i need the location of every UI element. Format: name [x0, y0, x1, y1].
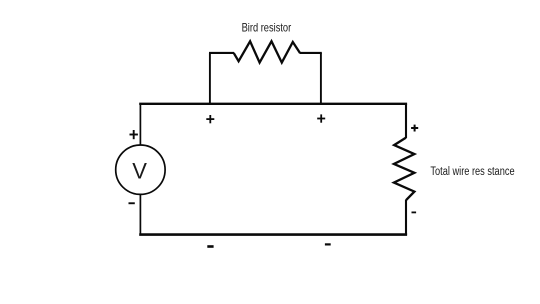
- wire left vertical lower: [139, 194, 141, 236]
- node plus near source: [130, 130, 138, 139]
- node minus at right resistor bottom: [412, 212, 417, 214]
- svg-text:Bird resistor: Bird resistor: [242, 21, 292, 35]
- wire left vertical upper: [139, 104, 141, 147]
- svg-text:V: V: [132, 158, 147, 183]
- node plus at right resistor top: [411, 125, 418, 132]
- svg-text:Total wire res stance: Total wire res stance: [430, 166, 514, 178]
- wire right vertical upper: [405, 104, 407, 138]
- wire bird-loop left horizontal: [209, 52, 234, 54]
- resistor bird zigzag: [234, 41, 300, 62]
- node plus at bird-loop right leg: [317, 114, 325, 122]
- wire bottom horizontal: [139, 233, 407, 236]
- wire bird-loop right horizontal: [300, 52, 322, 54]
- resistor total-wire zigzag: [394, 138, 415, 201]
- wire top horizontal: [139, 103, 407, 105]
- wire bird-loop left leg: [209, 53, 211, 105]
- wire bird-loop right leg: [320, 53, 322, 105]
- node plus at bird-loop left leg: [206, 115, 214, 123]
- wire right vertical lower: [405, 200, 407, 235]
- voltage source V1 circle: [116, 145, 165, 194]
- node minus bottom-left: [207, 245, 213, 248]
- node minus near source: [129, 202, 135, 204]
- node minus bottom-right: [325, 243, 331, 245]
